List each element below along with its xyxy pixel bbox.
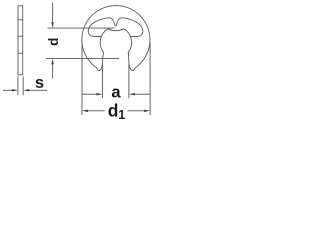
outer circle arc of e-clip — [82, 6, 150, 68]
d extension line lower — [46, 57, 119, 59]
d1 dimension lead left — [88, 110, 105, 112]
left wing cutout — [88, 18, 115, 37]
side view bar — [18, 6, 23, 75]
d1 extension line right (from outer circle) — [149, 42, 151, 116]
bar tick 2 — [18, 35, 22, 37]
d dimension stem lower — [52, 64, 54, 78]
d1 arrow right — [144, 110, 150, 112]
s arrow right — [23, 89, 29, 91]
d1 extension line left (from outer circle) — [81, 42, 83, 116]
a dimension lead right — [135, 93, 150, 95]
d extension line upper — [48, 27, 115, 29]
a dimension lead left — [82, 93, 96, 95]
a arrow right — [129, 93, 135, 95]
s dimension lead left — [3, 89, 13, 91]
s extension line right — [22, 77, 24, 96]
s arrow left — [12, 89, 18, 91]
d1 dimension lead right — [128, 110, 145, 112]
a arrow left — [96, 93, 102, 95]
a extension line left (from lip tip) — [101, 63, 103, 99]
bar tick 1 — [18, 19, 22, 21]
s dimension lead right — [29, 89, 48, 91]
d arrow lower — [51, 58, 53, 64]
right wing cutout — [116, 18, 143, 37]
d arrow upper — [51, 22, 53, 28]
svg-text:d: d — [108, 101, 119, 121]
d dimension stem upper — [52, 3, 54, 23]
right lip of mouth — [128, 52, 135, 70]
bar tick 3 — [18, 52, 22, 54]
a extension line right (from lip tip) — [128, 63, 130, 99]
s extension line left — [17, 77, 19, 96]
svg-text:s: s — [35, 74, 44, 92]
inner hole circle arc — [100, 29, 131, 53]
d1 arrow left — [82, 110, 88, 112]
left lip of mouth — [97, 52, 104, 70]
svg-text:a: a — [111, 83, 121, 101]
svg-text:1: 1 — [118, 108, 125, 122]
svg-text:d: d — [46, 38, 61, 46]
